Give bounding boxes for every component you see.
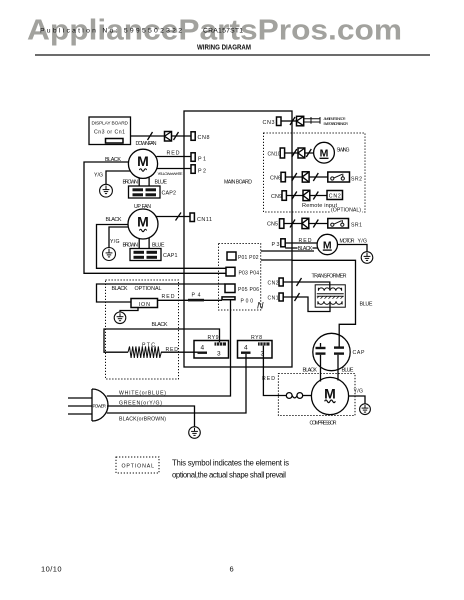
- connector CN1 (board): [268, 293, 284, 302]
- connector P2: [191, 165, 206, 175]
- svg-text:WIRING DIAGRAM: WIRING DIAGRAM: [197, 45, 251, 52]
- wire motor to cap2 leads: [138, 178, 140, 186]
- svg-text:3: 3: [217, 351, 221, 358]
- fuse P4: [188, 293, 204, 302]
- wire PTC to RY9 pin4: [161, 351, 198, 353]
- label BLACK (P3): [298, 245, 313, 253]
- wire BLACK line to RY8 pin4: [107, 354, 246, 413]
- svg-text:CN8: CN8: [198, 135, 210, 141]
- svg-text:M: M: [324, 386, 336, 402]
- transformer T1: [315, 285, 345, 307]
- svg-text:RED: RED: [167, 151, 180, 157]
- svg-text:4: 4: [244, 345, 248, 352]
- overload protector OLP: [286, 393, 311, 399]
- PTC heater R1 zigzag: [128, 347, 161, 358]
- svg-text:CN2: CN2: [268, 281, 279, 287]
- wire motor to ground: [338, 245, 368, 253]
- svg-text:TRANSFORMER: TRANSFORMER: [312, 274, 347, 280]
- wire CN10 to swing motor: [285, 152, 314, 154]
- wire ION to P4 to P00: [158, 299, 223, 301]
- connector P3: [272, 239, 286, 248]
- label (OPTIONAL): [330, 206, 362, 214]
- svg-text:BROWN: BROWN: [123, 243, 139, 249]
- capacitor CAP2: [129, 186, 177, 198]
- connector plug symbol (CN6): [302, 172, 309, 182]
- switch SR2: [328, 172, 350, 182]
- svg-text:CAP2: CAP2: [162, 191, 177, 197]
- connector P1: [191, 153, 206, 163]
- wire P02 stub: [261, 259, 292, 261]
- svg-text:CN2: CN2: [329, 194, 341, 200]
- svg-text:BLACK: BLACK: [152, 322, 168, 328]
- ION generator: [131, 299, 158, 308]
- dotted box P0x column: [219, 244, 261, 311]
- relay RY9: [194, 335, 229, 358]
- ground (power): [189, 427, 201, 439]
- capacitor CAP (run cap): [313, 333, 365, 370]
- wire P05 to ION: [97, 284, 226, 302]
- svg-text:6: 6: [230, 565, 234, 574]
- wire CN1 to transformer: [283, 297, 330, 312]
- svg-text:CN1: CN1: [268, 296, 279, 302]
- slash: [148, 132, 153, 140]
- title rule: [35, 54, 430, 56]
- slash: [290, 220, 295, 228]
- wire CN6 to SR2: [285, 176, 327, 178]
- wire BLACK up fan to P03: [97, 225, 227, 269]
- svg-text:Y/G: Y/G: [94, 173, 103, 179]
- svg-text:SR1: SR1: [351, 223, 362, 229]
- svg-text:RED: RED: [162, 294, 175, 300]
- ground (up fan): [103, 248, 116, 261]
- svg-text:Cn3 or Cn1: Cn3 or Cn1: [94, 130, 125, 136]
- svg-text:P03 P04: P03 P04: [239, 271, 260, 277]
- wire P01 to motor area: [261, 250, 314, 252]
- svg-text:BLACK: BLACK: [106, 217, 122, 223]
- slash: [174, 132, 179, 140]
- motor COMPRESSOR: [311, 377, 348, 414]
- svg-text:CN6: CN6: [270, 176, 281, 182]
- connector P05 P06: [225, 284, 259, 293]
- slash: [313, 192, 318, 200]
- svg-text:CN10: CN10: [268, 152, 281, 158]
- wire RED downfan to P1: [157, 156, 192, 158]
- wire RY9 pin3 to PTC: [104, 329, 220, 352]
- connector plug symbol (swing): [298, 148, 305, 158]
- wire compressor to ground: [349, 396, 365, 404]
- wire CN9 to CN2: [286, 195, 327, 197]
- ground (motor): [361, 252, 373, 264]
- svg-text:OPTIONAL: OPTIONAL: [135, 286, 162, 292]
- svg-text:CRA157ST1: CRA157ST1: [203, 28, 243, 35]
- sensor cable: [304, 117, 320, 124]
- slash: [306, 149, 311, 157]
- power plug: [68, 389, 108, 421]
- slash: [176, 213, 182, 221]
- svg-text:Y/G: Y/G: [358, 239, 368, 245]
- svg-text:OPTIONAL: OPTIONAL: [122, 464, 155, 470]
- wire RY8 pin3 to overload: [263, 346, 286, 396]
- svg-text:BLACK: BLACK: [303, 368, 318, 374]
- svg-text:POWER: POWER: [93, 404, 107, 409]
- svg-text:BLACK: BLACK: [112, 286, 128, 292]
- main board U1 outline: [184, 111, 292, 367]
- connector P01 P02: [227, 252, 259, 261]
- svg-text:MAIN BOARD: MAIN BOARD: [224, 180, 252, 186]
- wire BLACK down fan to P04: [84, 162, 226, 273]
- display board: [89, 117, 131, 145]
- connector plug symbol (CN5): [302, 218, 309, 228]
- connector CN2 (board): [268, 278, 284, 287]
- svg-text:Y/G: Y/G: [354, 389, 364, 395]
- connector CN9: [271, 191, 286, 201]
- relay RY8: [238, 335, 273, 358]
- wire GREEN to ground: [107, 406, 195, 427]
- svg-text:DISPLAY BOARD: DISPLAY BOARD: [92, 121, 129, 127]
- ground (ION): [114, 312, 126, 324]
- svg-text:P00: P00: [241, 299, 254, 305]
- capacitor CAP1: [130, 249, 178, 261]
- svg-text:CN5: CN5: [267, 222, 278, 228]
- motor SWING: [314, 142, 335, 163]
- svg-text:M: M: [137, 214, 149, 230]
- svg-text:Remote input: Remote input: [302, 203, 337, 209]
- connector plug symbol (sensor): [297, 116, 304, 126]
- optional dashed box (ION/PTC): [106, 280, 179, 379]
- wire CN5 to SR1: [284, 223, 328, 225]
- wire ION to ground: [120, 308, 138, 313]
- connector plug symbol (CN9): [303, 190, 310, 200]
- switch SR1: [328, 219, 349, 229]
- svg-text:DOWN FAN: DOWN FAN: [136, 141, 157, 147]
- motor DOWN FAN: [128, 149, 157, 178]
- svg-text:CAP: CAP: [353, 350, 366, 356]
- svg-text:P01 P02: P01 P02: [238, 255, 259, 261]
- connector P00: [222, 297, 253, 305]
- compressor dashed box: [278, 374, 355, 416]
- connector CN3: [263, 117, 282, 126]
- wire Y/G up fan to ground: [109, 227, 129, 248]
- display board connector bar: [106, 139, 124, 144]
- slash: [292, 149, 297, 157]
- svg-text:10/10: 10/10: [41, 565, 62, 574]
- wire YELLOW or WHITE downfan to P2: [157, 168, 191, 170]
- svg-text:BROWN: BROWN: [123, 180, 139, 186]
- svg-text:4: 4: [201, 345, 205, 352]
- svg-text:MOTOR: MOTOR: [340, 239, 355, 245]
- svg-text:COMPRESSOR: COMPRESSOR: [310, 421, 337, 427]
- connector CN11: [190, 213, 212, 223]
- svg-text:YELLOW or WHITE: YELLOW or WHITE: [158, 171, 183, 176]
- wire BLACK P3 to motor: [285, 247, 318, 249]
- wire cap to compressor (blue): [337, 355, 339, 381]
- connector plug symbol (display-CN8): [165, 132, 172, 142]
- wire CN2 to transformer: [283, 282, 330, 289]
- svg-text:optional,the actual shape shal: optional,the actual shape shall prevail: [172, 471, 286, 480]
- slash: [292, 192, 297, 200]
- motor UP FAN: [128, 209, 158, 239]
- ground (down fan): [100, 184, 113, 197]
- connector CN2 (remote): [327, 191, 343, 200]
- wire cap to compressor (black): [320, 355, 322, 382]
- svg-text:BLUE: BLUE: [342, 368, 354, 374]
- svg-text:Y/G: Y/G: [110, 239, 120, 245]
- legend optional box: [116, 457, 159, 473]
- connector CN10: [268, 148, 285, 158]
- svg-text:ION: ION: [139, 302, 151, 308]
- svg-text:CN9: CN9: [271, 194, 282, 200]
- svg-text:BLACK(orBROWN): BLACK(orBROWN): [119, 417, 166, 423]
- svg-text:BLUE: BLUE: [152, 243, 165, 249]
- svg-text:N: N: [257, 301, 264, 311]
- svg-text:SR2: SR2: [351, 177, 362, 183]
- connector P03 P04: [226, 267, 259, 276]
- wire CN3 to sensors: [281, 120, 297, 122]
- slash: [297, 278, 302, 286]
- svg-text:M: M: [137, 153, 149, 169]
- svg-text:BLUE: BLUE: [155, 180, 168, 186]
- connector CN6: [270, 172, 285, 182]
- connector CN5: [267, 219, 284, 229]
- connector CN8: [191, 132, 210, 141]
- svg-text:This symbol indicates the elem: This symbol indicates the element is: [172, 459, 289, 468]
- slash: [313, 173, 318, 181]
- wire display board to CN8: [131, 135, 192, 137]
- slash: [313, 220, 318, 228]
- ground (compressor): [360, 404, 371, 415]
- slash: [292, 173, 297, 181]
- wire up fan to CN11: [156, 216, 191, 218]
- svg-text:P05 P06: P05 P06: [238, 287, 259, 293]
- svg-text:CAP1: CAP1: [163, 253, 178, 259]
- svg-text:CN11: CN11: [197, 217, 212, 223]
- wire Y/G down fan to ground: [106, 171, 130, 184]
- motor MOTOR (vent): [317, 234, 337, 254]
- wire WHITE neutral to P00: [107, 300, 231, 396]
- wire motor to cap1 leads: [138, 238, 140, 249]
- optional dashed box (right): [264, 133, 366, 212]
- svg-text:EVAPORATOR SENSOR: EVAPORATOR SENSOR: [324, 121, 349, 126]
- slash: [295, 293, 300, 301]
- svg-text:BLUE: BLUE: [360, 302, 373, 308]
- wire RED P3 to motor: [285, 242, 317, 244]
- transformer enclosure: [292, 260, 356, 347]
- svg-text:CN3: CN3: [263, 120, 275, 126]
- svg-text:SWING: SWING: [337, 148, 350, 154]
- slash: [290, 117, 295, 125]
